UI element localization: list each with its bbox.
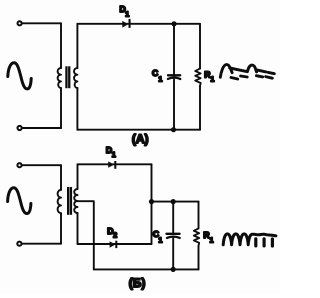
transformer T2 secondary winding <box>74 189 77 213</box>
node junction B C1 bottom <box>171 267 176 272</box>
node junction A top (C1) <box>171 21 176 26</box>
wire A bottom-left <box>22 127 61 129</box>
transformer T2 core <box>67 187 72 215</box>
terminal B input bottom <box>17 242 21 246</box>
wire B center tap <box>78 201 94 269</box>
wire B C1 branch <box>172 202 174 270</box>
svg-text:1: 1 <box>158 74 162 83</box>
terminal A input bottom <box>18 126 22 130</box>
waveform A dashes upper <box>257 70 275 74</box>
terminal B input top <box>17 163 21 167</box>
wire B bottom rail <box>94 268 199 270</box>
svg-text:(Б): (Б) <box>129 276 146 290</box>
waveform A dashes lower <box>231 76 272 79</box>
node junction B rect output <box>149 199 154 204</box>
svg-text:1: 1 <box>158 236 162 245</box>
svg-text:2: 2 <box>113 231 117 240</box>
wire A R1 branch <box>199 24 201 130</box>
wire B top rail <box>78 163 152 165</box>
svg-text:1: 1 <box>125 9 129 18</box>
transformer T1 primary winding <box>58 68 61 88</box>
wire B output vertical <box>151 164 153 244</box>
svg-text:1: 1 <box>112 150 116 159</box>
node junction A bottom (C1) <box>171 127 176 132</box>
svg-text:1: 1 <box>210 74 214 83</box>
waveform A ripple solid <box>220 65 256 78</box>
wire B D2 row <box>78 243 152 245</box>
transformer T1 core <box>65 66 70 88</box>
wire B top-left <box>22 164 61 166</box>
svg-text:C: C <box>152 68 158 78</box>
capacitor C1 (A) <box>168 74 180 76</box>
wire B secondary vertical <box>77 164 79 244</box>
wire A top-left <box>22 22 61 24</box>
AC source sine A <box>8 63 31 89</box>
capacitor C1 (B) <box>167 233 180 235</box>
svg-text:1: 1 <box>210 235 214 244</box>
wire A primary left vertical <box>60 23 62 128</box>
node junction B C1 top <box>171 199 176 204</box>
waveform B full-wave arches <box>223 234 276 245</box>
wire B primary left vertical <box>60 165 62 244</box>
diode D1 (B) <box>108 161 116 169</box>
wire A bottom rail <box>77 129 200 131</box>
AC source sine B <box>8 188 31 214</box>
transformer T1 secondary winding <box>74 68 77 88</box>
diode D2 (B) <box>110 241 118 248</box>
wire B filter top rail <box>152 201 199 203</box>
wire A secondary left vertical <box>76 24 78 130</box>
resistor R1 (A) <box>195 69 201 86</box>
waveform B cusp ticks <box>256 239 273 246</box>
wire B R1 branch <box>198 202 200 270</box>
terminal A input top <box>18 21 22 25</box>
wire B bottom-left <box>22 243 61 245</box>
wire A top rail <box>77 23 200 25</box>
diode D1 (A) <box>122 19 130 28</box>
resistor R1 (B) <box>194 228 199 245</box>
wire A C1 branch <box>173 24 175 130</box>
svg-text:(A): (A) <box>132 132 149 146</box>
transformer T2 primary winding <box>58 190 61 213</box>
